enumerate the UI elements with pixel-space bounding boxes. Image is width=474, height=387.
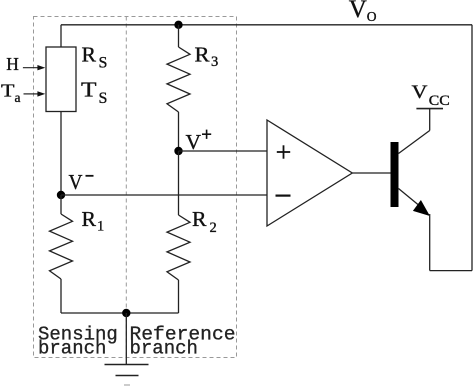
input arrow Ta — [24, 91, 46, 96]
label Reference branch — [130, 324, 236, 360]
wire emitter to right rail — [430, 270, 472, 272]
svg-text:2: 2 — [210, 220, 217, 236]
svg-text:R: R — [82, 42, 97, 66]
wire op-amp output to base — [352, 172, 390, 174]
svg-text:S: S — [99, 55, 108, 72]
label V- — [69, 170, 94, 194]
op-amp minus pin mark — [276, 195, 291, 197]
svg-text:H: H — [6, 54, 19, 74]
node V+ — [174, 147, 182, 155]
VCC supply terminal — [416, 108, 443, 110]
svg-text:1: 1 — [97, 218, 104, 234]
svg-text:3: 3 — [211, 54, 218, 70]
label R3 — [195, 42, 219, 70]
transistor Q1 — [391, 131, 430, 217]
svg-text:R: R — [192, 207, 207, 231]
resistor R2 — [167, 151, 190, 313]
label VCC — [412, 82, 450, 109]
svg-text:T: T — [81, 78, 97, 102]
label VO — [349, 0, 377, 24]
wire V+ to op-amp — [179, 150, 268, 152]
svg-text:branch: branch — [38, 338, 106, 360]
junction node above R3 — [174, 21, 182, 29]
sensor resistor RS/TS rectangle — [46, 47, 76, 112]
wire collector to VCC — [429, 109, 431, 131]
svg-text:V: V — [412, 82, 428, 103]
label R2 — [192, 207, 217, 236]
svg-text:branch: branch — [130, 338, 198, 360]
ground — [105, 313, 149, 385]
input arrow H — [23, 65, 45, 70]
node V- — [57, 191, 65, 199]
svg-text:V: V — [349, 0, 367, 23]
resistor R1 — [50, 195, 73, 313]
svg-text:S: S — [99, 90, 108, 107]
resistor R3 — [167, 25, 190, 151]
op-amp U1 — [267, 120, 352, 226]
wire RS bottom to V- node — [60, 112, 62, 196]
wire top supply rail VO net — [61, 24, 472, 26]
wire RS top to supply rail — [60, 25, 62, 47]
label V+ — [186, 130, 212, 155]
svg-text:a: a — [15, 90, 21, 105]
dashed boundary box — [34, 17, 237, 358]
junction node ground tap — [122, 309, 130, 317]
wire bottom rail R1 to R2 — [61, 312, 179, 314]
wire right rail up to VO — [471, 25, 473, 271]
svg-text:R: R — [195, 42, 210, 66]
svg-text:V: V — [69, 170, 83, 194]
svg-text:O: O — [367, 9, 377, 24]
dashed branch divider — [125, 17, 127, 358]
op-amp plus pin mark — [277, 145, 290, 158]
label RS — [82, 42, 108, 71]
wire emitter down — [429, 214, 431, 271]
svg-text:R: R — [82, 207, 97, 231]
label TS — [81, 78, 107, 107]
wire V- to op-amp — [61, 194, 267, 196]
label R1 — [82, 207, 105, 234]
svg-text:T: T — [1, 80, 15, 100]
svg-text:CC: CC — [429, 93, 450, 109]
label Ta — [1, 80, 21, 105]
label Sensing branch — [38, 324, 118, 360]
